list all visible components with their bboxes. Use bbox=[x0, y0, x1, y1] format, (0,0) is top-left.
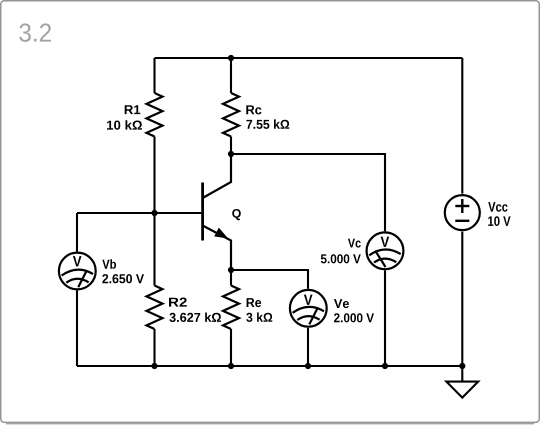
resistor R2 bbox=[147, 213, 163, 366]
label: Vb meter V glyph bbox=[73, 256, 82, 266]
label: Vcc value 10 V bbox=[488, 216, 510, 226]
label: Re designator bbox=[247, 298, 262, 307]
resistor Rc bbox=[223, 58, 239, 154]
ground bbox=[446, 382, 478, 398]
transistor Q bbox=[203, 154, 231, 270]
junction: Vc bottom bbox=[382, 363, 388, 369]
label: figure number 3.2 bbox=[19, 23, 51, 42]
wire: emitter node to Ve meter bbox=[231, 270, 308, 289]
junction: Ve bottom bbox=[305, 363, 311, 369]
label: R2 value 3.627 kΩ bbox=[169, 313, 221, 323]
label: R1 value 10 kΩ bbox=[107, 120, 142, 130]
label: Ve meter V glyph bbox=[304, 295, 313, 305]
wire: Vb column lower segment bbox=[76, 291, 78, 367]
junction: Re bottom bbox=[228, 363, 234, 369]
label: Rc value 7.55 kΩ bbox=[246, 119, 289, 128]
wire: Ve meter to bottom bus bbox=[307, 328, 309, 366]
wire: Vc meter to bottom bus bbox=[384, 270, 386, 366]
junction: emitter node bbox=[228, 267, 234, 273]
voltmeter Vc bbox=[367, 232, 404, 269]
resistor R1 bbox=[147, 58, 163, 213]
label: Vb designator bbox=[102, 259, 116, 269]
source Vcc bbox=[445, 195, 480, 230]
label: Vc designator bbox=[348, 239, 361, 248]
wire: base wire from Vb column to transistor base bbox=[77, 212, 201, 214]
label: Ve designator bbox=[334, 299, 349, 308]
label: Re value 3 kΩ bbox=[246, 312, 272, 322]
label: R2 designator bbox=[169, 298, 187, 307]
wire: collector node to Vc meter bbox=[231, 154, 385, 231]
resistor Re bbox=[223, 270, 239, 366]
label: R1 designator bbox=[125, 105, 141, 114]
junction: R2 bottom bbox=[151, 363, 157, 369]
junction: top bus / Rc top node bbox=[228, 55, 234, 61]
label: Ve reading 2.000 V bbox=[334, 313, 374, 322]
junction: base node at R1/R2 column bbox=[151, 210, 157, 216]
junction: collector node bbox=[228, 151, 234, 157]
wire: stub to ground symbol bbox=[461, 366, 463, 382]
wire: Vb column upper segment bbox=[76, 213, 78, 252]
wire: bottom ground bus bbox=[77, 365, 462, 367]
wire: Vcc column upper segment bbox=[461, 58, 463, 194]
label: Vcc designator bbox=[488, 202, 507, 212]
label: Vc reading 5.000 V bbox=[321, 254, 361, 263]
label: Vb reading 2.650 V bbox=[102, 274, 144, 283]
label: Vc meter V glyph bbox=[381, 237, 390, 247]
label: Q designator bbox=[232, 209, 241, 220]
voltmeter Vb bbox=[59, 253, 96, 290]
junction: ground node bbox=[459, 363, 465, 369]
voltmeter Ve bbox=[290, 290, 327, 327]
wire: top supply bus bbox=[155, 57, 463, 59]
wire: Vcc column lower segment bbox=[461, 232, 463, 366]
label: Rc designator bbox=[246, 105, 261, 114]
